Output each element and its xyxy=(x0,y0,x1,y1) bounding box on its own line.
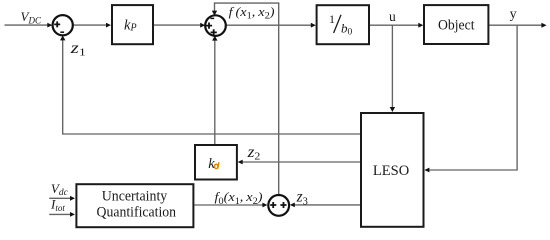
svg-text:1: 1 xyxy=(329,12,335,26)
svg-text:LESO: LESO xyxy=(373,163,409,179)
svg-text:Uncertainty: Uncertainty xyxy=(102,189,168,205)
svg-text:y: y xyxy=(510,7,517,22)
svg-text:Object: Object xyxy=(438,18,475,34)
svg-text:Quantification: Quantification xyxy=(97,205,177,221)
svg-text:k: k xyxy=(208,156,215,172)
svg-text:u: u xyxy=(389,9,396,24)
